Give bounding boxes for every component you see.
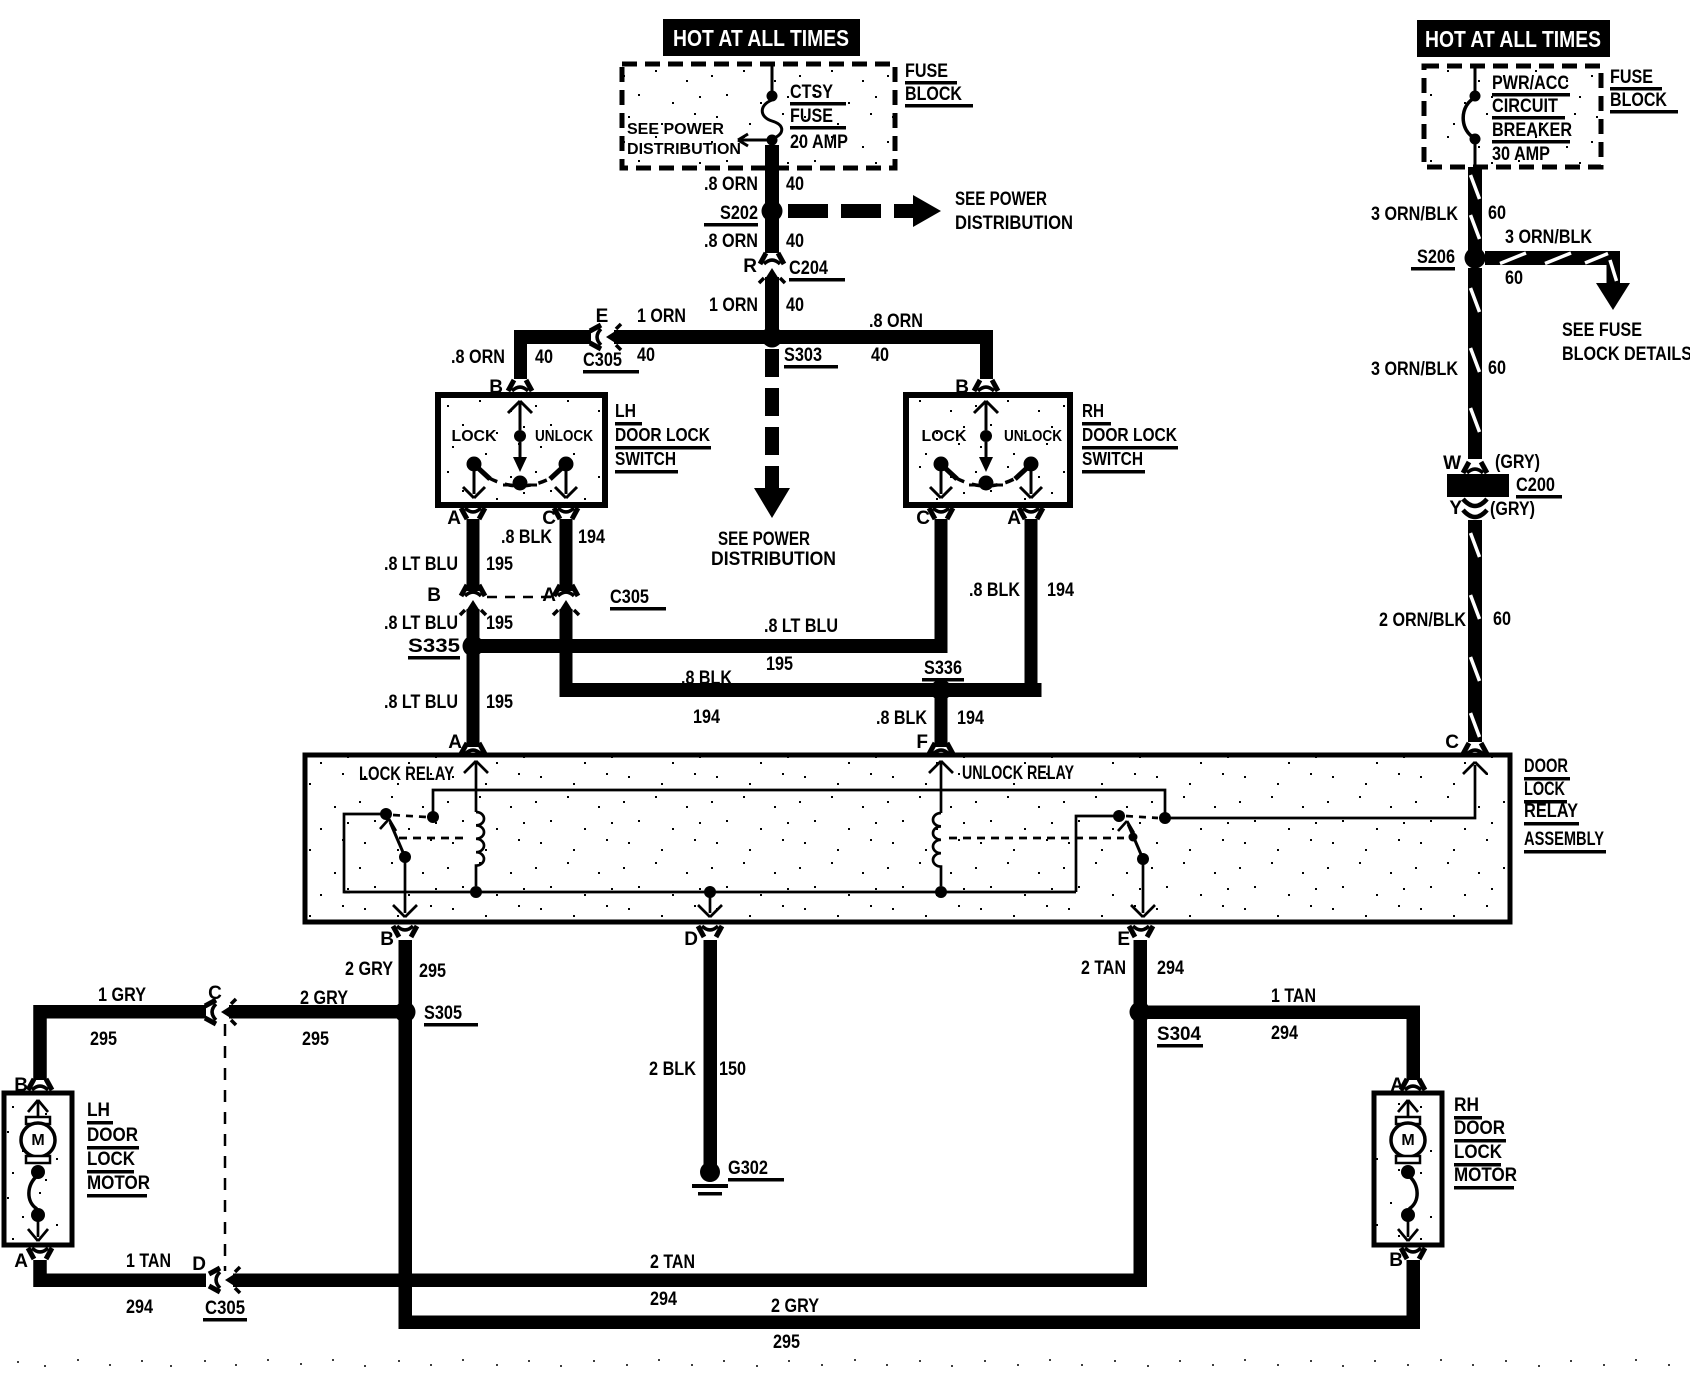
svg-text:2 GRY: 2 GRY (300, 988, 348, 1009)
svg-text:UNLOCK: UNLOCK (535, 428, 593, 445)
svg-text:DISTRIBUTION: DISTRIBUTION (711, 549, 836, 570)
svg-text:.8 LT BLU: .8 LT BLU (764, 616, 838, 637)
label LH DOOR LOCK SWITCH (615, 401, 711, 474)
svg-text:.8 LT BLU: .8 LT BLU (384, 692, 458, 713)
wire LH motor A to C305 D (1 TAN 294) (40, 1260, 206, 1280)
svg-text:LOCK: LOCK (1524, 779, 1565, 800)
svg-text:(GRY): (GRY) (1490, 499, 1535, 520)
svg-text:.8 ORN: .8 ORN (451, 347, 505, 368)
svg-text:2 GRY: 2 GRY (345, 959, 393, 980)
connector terminal B RH switch (974, 380, 998, 391)
wire S305 left to connector C (2 GRY 295) (229, 1005, 399, 1019)
RH door lock motor box (1374, 1093, 1442, 1245)
scan noise dots bottom (17, 1359, 1670, 1367)
lock relay coil input arrow (A) (464, 761, 488, 812)
wire RH A down to BLK bus (1025, 519, 1038, 697)
lock relay dashed actuation link (399, 837, 468, 840)
svg-text:195: 195 (486, 613, 513, 634)
node lock coil bottom (470, 886, 482, 898)
svg-text:DISTRIBUTION: DISTRIBUTION (955, 213, 1073, 234)
svg-text:DOOR: DOOR (87, 1125, 138, 1146)
wire C305 B to S335 (.8 LT BLU 195) (467, 609, 480, 647)
svg-text:FUSE: FUSE (905, 61, 948, 82)
svg-text:2 GRY: 2 GRY (771, 1296, 819, 1317)
LH switch wiper arrow (513, 442, 527, 472)
connector terminal C LH switch (554, 508, 578, 519)
lock relay switch dashed gap (393, 815, 426, 817)
label 2 TAN 294 (650, 1252, 695, 1310)
connector terminal A LH motor (28, 1248, 52, 1259)
wire C204 to S303 (1 ORN 40) (765, 277, 779, 344)
splice S304 (1130, 1002, 1151, 1023)
svg-text:194: 194 (1047, 580, 1074, 601)
connector terminal C RH switch (929, 508, 953, 519)
svg-text:CTSY: CTSY (790, 82, 833, 103)
svg-text:S202: S202 (720, 203, 758, 224)
svg-text:Y: Y (1449, 498, 1462, 519)
lock relay contact (427, 811, 439, 823)
svg-text:3 ORN/BLK: 3 ORN/BLK (1505, 227, 1592, 248)
svg-text:294: 294 (1157, 958, 1184, 979)
svg-text:C: C (916, 508, 930, 529)
wire S303 horizontal bus right of C305 (614, 330, 993, 344)
svg-text:A: A (447, 508, 461, 529)
svg-text:HOT AT ALL TIMES: HOT AT ALL TIMES (1425, 26, 1601, 52)
svg-text:D: D (192, 1254, 206, 1275)
wire into circuit breaker (1474, 66, 1477, 94)
wire S304 down to 2 TAN bus (1134, 1019, 1148, 1287)
label S202 (704, 203, 758, 227)
svg-text:BLOCK: BLOCK (905, 84, 962, 105)
connector terminal D relay (bottom) (698, 926, 722, 937)
wire left drop to LH switch B (.8 ORN 40) (514, 330, 527, 379)
svg-text:194: 194 (957, 708, 984, 729)
connector terminal B LH motor (28, 1079, 52, 1090)
LH switch input arrow from B (508, 401, 532, 430)
svg-text:CIRCUIT: CIRCUIT (1492, 96, 1558, 117)
RH switch node (980, 430, 992, 442)
svg-text:195: 195 (766, 654, 793, 675)
wire relay bottom bus (344, 891, 1076, 894)
svg-text:A: A (14, 1251, 28, 1272)
unlock relay switch dashed gap (1126, 816, 1158, 818)
node fuse bottom (767, 135, 778, 146)
label C305 (top) (583, 350, 639, 374)
node unlock coil bottom (935, 886, 947, 898)
svg-text:DOOR LOCK: DOOR LOCK (615, 425, 710, 445)
svg-text:D: D (684, 929, 698, 950)
wire D tap to terminal D (698, 892, 722, 917)
splice S336 (931, 680, 952, 701)
wire lock arm to terminal B (393, 857, 417, 917)
svg-text:A: A (1007, 508, 1021, 529)
svg-text:60: 60 (1505, 268, 1523, 289)
label .8 BLK 194 (horizontal) (681, 668, 732, 728)
svg-text:FUSE: FUSE (790, 106, 833, 127)
connector C (GRY inline) (205, 999, 236, 1025)
wire S303 horizontal bus left of C305 (514, 330, 591, 344)
RH motor output arrow (1398, 1221, 1418, 1241)
svg-text:SEE FUSE: SEE FUSE (1562, 320, 1642, 341)
unlock relay movable arm (1118, 821, 1149, 865)
label SEE POWER DISTRIBUTION (in fuse box) (627, 121, 741, 158)
label .8 ORN 40 (below S202) (704, 231, 804, 252)
RH motor input arrow (1398, 1100, 1418, 1120)
svg-text:294: 294 (126, 1297, 153, 1318)
label .8 ORN 40 (right of S303) (869, 311, 923, 366)
wire S335 to RH C (.8 LT BLU 195 horizontal) (467, 639, 948, 653)
LH motor lower node (31, 1208, 45, 1222)
RH motor lower node (1401, 1208, 1415, 1222)
LH motor flex lead (29, 1175, 38, 1209)
svg-text:.8 LT BLU: .8 LT BLU (384, 613, 458, 634)
svg-text:S206: S206 (1417, 247, 1455, 268)
svg-text:40: 40 (871, 345, 889, 366)
svg-text:DOOR: DOOR (1524, 756, 1568, 777)
connector C204 (759, 253, 785, 283)
svg-text:LOCK: LOCK (87, 1149, 135, 1170)
splice S303 (762, 327, 783, 348)
svg-text:1 TAN: 1 TAN (126, 1251, 171, 1272)
connector C305 pin E (inline) (590, 324, 621, 350)
lock relay switch pivot (380, 808, 392, 820)
label S206 (1411, 247, 1455, 271)
label 2 ORN/BLK 60 (1379, 609, 1511, 631)
LH door lock switch box (438, 395, 605, 505)
svg-text:F: F (916, 732, 928, 753)
label Y (GRY) (1449, 498, 1535, 520)
wire into CTSY fuse (771, 64, 774, 94)
svg-text:295: 295 (302, 1029, 329, 1050)
label S336 (922, 658, 964, 682)
svg-text:2 TAN: 2 TAN (650, 1252, 695, 1273)
svg-text:LH: LH (615, 401, 636, 421)
LH motor lower contact (31, 1165, 45, 1179)
svg-text:C200: C200 (1516, 475, 1555, 496)
svg-text:B: B (1389, 1250, 1403, 1271)
svg-text:.8 ORN: .8 ORN (869, 311, 923, 332)
wire S305 down to 2 GRY bus (399, 1019, 413, 1329)
svg-text:SWITCH: SWITCH (615, 449, 676, 469)
unlock relay dashed actuation link (949, 837, 1124, 840)
svg-text:C: C (542, 508, 556, 529)
label SEE FUSE BLOCK DETAILS (1562, 320, 1690, 365)
wire LH C down (.8 BLK 194) (560, 519, 573, 591)
svg-text:BREAKER: BREAKER (1492, 120, 1572, 141)
wire unlock arm to terminal E (1131, 859, 1155, 917)
lock relay movable arm (380, 819, 411, 863)
label RH DOOR LOCK SWITCH (1082, 401, 1178, 474)
svg-text:.8 LT BLU: .8 LT BLU (384, 554, 458, 575)
svg-text:294: 294 (1271, 1023, 1298, 1044)
wire right drop to RH switch B (980, 330, 993, 379)
label RH DOOR LOCK MOTOR (1454, 1095, 1517, 1190)
power label HOT AT ALL TIMES (right) (1417, 20, 1610, 57)
label 2 GRY 295 (left of S305) (300, 988, 348, 1050)
wire S336 down to relay F (.8 BLK 194) (935, 697, 948, 747)
wire S304 right to RH motor A (1 TAN 294) (1148, 1012, 1413, 1080)
RH switch input arrow from B (974, 401, 998, 430)
label W (GRY) (1443, 452, 1540, 474)
ground G302 (692, 1162, 728, 1196)
connector terminal A RH motor (1401, 1079, 1425, 1090)
label R C204 (743, 256, 845, 282)
svg-text:60: 60 (1493, 609, 1511, 630)
RH switch pivot (969, 476, 1003, 491)
connector terminal B LH switch (508, 380, 532, 391)
svg-text:BLOCK: BLOCK (1610, 90, 1667, 111)
svg-text:.8 BLK: .8 BLK (876, 708, 927, 729)
svg-text:UNLOCK: UNLOCK (1004, 428, 1062, 445)
label 1 ORN 40 (left of S303) (637, 306, 686, 366)
svg-text:295: 295 (773, 1332, 800, 1353)
wire C200 to relay C (2 ORN/BLK 60, striped) (1468, 520, 1482, 742)
LH switch pivot (503, 476, 537, 491)
label 3 ORN/BLK 60 (above S206) (1371, 203, 1506, 225)
svg-text:W: W (1443, 453, 1461, 474)
svg-text:30 AMP: 30 AMP (1492, 144, 1550, 165)
svg-text:40: 40 (786, 295, 804, 316)
LH door lock motor box (4, 1093, 72, 1245)
unlock relay coil input arrow (F) (929, 761, 953, 813)
svg-text:SEE POWER: SEE POWER (627, 121, 724, 138)
connector C305 pin D (inline TAN) (209, 1267, 240, 1293)
label G302 (728, 1158, 784, 1182)
svg-text:S304: S304 (1157, 1024, 1201, 1045)
label .8 BLK 194 (above F) (876, 708, 984, 729)
svg-text:LOCK: LOCK (1454, 1142, 1502, 1163)
label DOOR LOCK RELAY ASSEMBLY (1524, 756, 1606, 854)
svg-text:DOOR LOCK: DOOR LOCK (1082, 425, 1177, 445)
label S335 (408, 636, 461, 660)
svg-text:LOCK RELAY: LOCK RELAY (359, 764, 454, 785)
connector terminal A LH switch (461, 508, 485, 519)
wire RH C down to S335 bus (935, 519, 948, 653)
unlock relay contact (1159, 812, 1171, 824)
svg-text:MOTOR: MOTOR (87, 1173, 150, 1194)
svg-text:194: 194 (578, 527, 605, 548)
wire S206 right branch (3 ORN/BLK 60, striped) (1485, 251, 1630, 310)
wire breaker to S206 (3 ORN/BLK 60, striped) (1468, 167, 1482, 251)
wire unlock contact to terminal C (1165, 762, 1487, 818)
svg-text:.8 BLK: .8 BLK (681, 668, 732, 689)
svg-text:E: E (1117, 929, 1130, 950)
svg-text:LH: LH (87, 1100, 110, 1121)
connector C200 pin W (1463, 462, 1487, 473)
connector C305 pin A (inline) (553, 585, 579, 615)
wire LH C below C305 down to BLK bus (560, 609, 573, 697)
svg-text:ASSEMBLY: ASSEMBLY (1524, 829, 1604, 850)
svg-text:295: 295 (419, 961, 446, 982)
label LH DOOR LOCK MOTOR (87, 1100, 150, 1198)
connector terminal C relay (1463, 743, 1487, 754)
connector C305 pin B (inline) (460, 585, 486, 615)
svg-text:DOOR: DOOR (1454, 1118, 1505, 1139)
svg-text:40: 40 (786, 231, 804, 252)
svg-text:SEE POWER: SEE POWER (955, 189, 1047, 210)
arrow see power distribution (in fuse box) (738, 134, 770, 146)
svg-text:294: 294 (650, 1289, 677, 1310)
svg-text:2 ORN/BLK: 2 ORN/BLK (1379, 610, 1466, 631)
svg-text:1 GRY: 1 GRY (98, 985, 146, 1006)
label .8 LT BLU 195 (above A) (384, 692, 513, 713)
power label HOT AT ALL TIMES (left) (663, 19, 860, 56)
gap cover for C305 inline (589, 329, 591, 331)
fuse block box (right) (1424, 66, 1601, 167)
label S305 (424, 1003, 478, 1027)
svg-text:RH: RH (1454, 1095, 1479, 1116)
node D tap (704, 886, 716, 898)
RH switch UNLOCK contact (1015, 457, 1042, 499)
wire dashed arrow to see power distribution (788, 195, 941, 227)
svg-text:S335: S335 (408, 636, 461, 657)
svg-text:PWR/ACC: PWR/ACC (1492, 73, 1569, 94)
fuse block box (left) (622, 64, 895, 168)
svg-text:LOCK: LOCK (452, 428, 497, 445)
RH door lock switch box (906, 395, 1070, 505)
label 3 ORN/BLK 60 (right branch) (1505, 227, 1592, 289)
label 2 TAN 294 (above S304) (1081, 958, 1184, 979)
wire RH motor B to 2 GRY bus (405, 1260, 1413, 1322)
label 1 TAN 294 (126, 1251, 171, 1318)
connector terminal B RH motor (1401, 1248, 1425, 1259)
label 2 GRY 295 (bottom bus) (771, 1296, 819, 1353)
LH switch dashed throw arc (489, 478, 551, 486)
svg-text:G302: G302 (728, 1158, 768, 1179)
LH motor armature M (21, 1117, 55, 1163)
unlock relay switch pivot (1113, 810, 1125, 822)
svg-text:40: 40 (786, 174, 804, 195)
connector C200 body (1447, 474, 1509, 497)
fuse CTSY (762, 100, 782, 139)
svg-text:295: 295 (90, 1029, 117, 1050)
label PWR/ACC CIRCUIT BREAKER 30 AMP (1492, 73, 1572, 165)
svg-text:40: 40 (535, 347, 553, 368)
RH switch wiper arrow (979, 442, 993, 472)
connector terminal E relay (bottom) (1129, 926, 1153, 937)
svg-text:C204: C204 (789, 258, 828, 279)
svg-text:(GRY): (GRY) (1495, 452, 1540, 473)
svg-text:1 ORN: 1 ORN (637, 306, 686, 327)
unlock relay coil (933, 813, 941, 886)
label 3 ORN/BLK 60 (above C200) (1371, 358, 1506, 380)
svg-text:.8 BLK: .8 BLK (501, 527, 552, 548)
wire S206 down to C200 (3 ORN/BLK 60, striped) (1468, 268, 1482, 459)
wire lock pivot to bottom bus (344, 814, 386, 892)
wire 1 GRY 295 to LH motor B (40, 1012, 206, 1080)
label 1 ORN 40 (above S303) (709, 295, 804, 316)
svg-text:LOCK: LOCK (922, 428, 967, 445)
RH motor lower contact (1401, 1165, 1415, 1179)
svg-text:M: M (31, 1132, 44, 1149)
svg-text:60: 60 (1488, 203, 1506, 224)
LH switch LOCK contact (463, 457, 490, 499)
svg-text:150: 150 (719, 1059, 746, 1080)
wire fuse to C204 (.8 ORN 40) (765, 145, 779, 253)
svg-text:RELAY: RELAY (1524, 801, 1578, 822)
svg-text:C: C (208, 983, 222, 1004)
wire unlock pivot to bottom bus (1076, 816, 1119, 892)
wire relay E to S304 (2 TAN 294) (1134, 940, 1148, 1006)
label 1 GRY 295 (90, 985, 146, 1050)
label .8 BLK 194 (RH A wire) (969, 580, 1074, 601)
RH switch LOCK contact (930, 457, 957, 499)
svg-text:3 ORN/BLK: 3 ORN/BLK (1371, 359, 1458, 380)
svg-text:.8 ORN: .8 ORN (704, 231, 758, 252)
connector terminal A RH switch (1019, 508, 1043, 519)
connector terminal F relay (929, 743, 953, 754)
svg-text:1 TAN: 1 TAN (1271, 986, 1316, 1007)
label SEE POWER DISTRIBUTION (right of S202) (955, 189, 1073, 234)
label C305 (bottom) (203, 1298, 247, 1322)
svg-text:SEE POWER: SEE POWER (718, 529, 810, 550)
connector terminal B relay (bottom) (393, 926, 417, 937)
svg-text:DISTRIBUTION: DISTRIBUTION (627, 141, 741, 158)
label 2 GRY 295 (above S305) (345, 959, 446, 982)
dashed connector tie C305 (487, 596, 552, 599)
svg-text:60: 60 (1488, 358, 1506, 379)
svg-text:194: 194 (693, 707, 720, 728)
label 1 TAN 294 (right) (1271, 986, 1316, 1044)
svg-text:A: A (448, 732, 462, 753)
LH switch UNLOCK contact (550, 457, 577, 499)
label .8 ORN 40 (above S202) (704, 174, 804, 195)
label S304 (1157, 1024, 1203, 1048)
wire S335 down to relay A (.8 LT BLU 195) (467, 653, 480, 747)
svg-text:MOTOR: MOTOR (1454, 1165, 1517, 1186)
wire relay D to G302 (2 BLK 150) (704, 940, 718, 1165)
wire relay B to S305 (2 GRY 295) (399, 940, 413, 1006)
svg-text:20 AMP: 20 AMP (790, 132, 848, 153)
wire S303 dashed down (754, 349, 790, 518)
splice S206 (1465, 248, 1486, 269)
splice S202 (762, 201, 783, 222)
svg-text:40: 40 (637, 345, 655, 366)
label .8 ORN 40 (left drop) (451, 347, 553, 368)
svg-text:C305: C305 (610, 587, 649, 608)
svg-text:195: 195 (486, 554, 513, 575)
svg-text:A: A (542, 585, 556, 606)
LH switch node (514, 430, 526, 442)
svg-text:E: E (596, 306, 609, 327)
svg-text:UNLOCK RELAY: UNLOCK RELAY (962, 763, 1074, 784)
lock relay coil (476, 812, 484, 886)
LH motor output arrow (28, 1221, 48, 1241)
node fuse top (767, 91, 778, 102)
wire LH A down to C305 (.8 LT BLU 195) (467, 519, 480, 591)
svg-text:2 BLK: 2 BLK (649, 1059, 696, 1080)
svg-text:S303: S303 (784, 345, 822, 366)
splice S335 (463, 636, 484, 657)
wire 2 TAN 294 horizontal to S304 drop (233, 1274, 1146, 1288)
label SEE POWER DISTRIBUTION (below S303) (711, 529, 836, 570)
svg-text:FUSE: FUSE (1610, 67, 1653, 88)
svg-text:C: C (1445, 732, 1459, 753)
wire lock contact to unlock contact (top link) (433, 790, 1165, 817)
svg-text:.8 ORN: .8 ORN (704, 174, 758, 195)
svg-text:C305: C305 (205, 1298, 245, 1319)
label S303 (784, 345, 838, 369)
svg-text:SWITCH: SWITCH (1082, 449, 1143, 469)
label FUSE BLOCK (left) (905, 61, 973, 108)
svg-text:S305: S305 (424, 1003, 462, 1024)
svg-text:.8 BLK: .8 BLK (969, 580, 1020, 601)
connector C200 pin Y (1463, 499, 1487, 517)
dashed connector tie C305 (vertical) (224, 1024, 227, 1271)
svg-text:3 ORN/BLK: 3 ORN/BLK (1371, 204, 1458, 225)
RH motor flex lead (1408, 1175, 1417, 1209)
svg-text:HOT AT ALL TIMES: HOT AT ALL TIMES (673, 25, 849, 51)
